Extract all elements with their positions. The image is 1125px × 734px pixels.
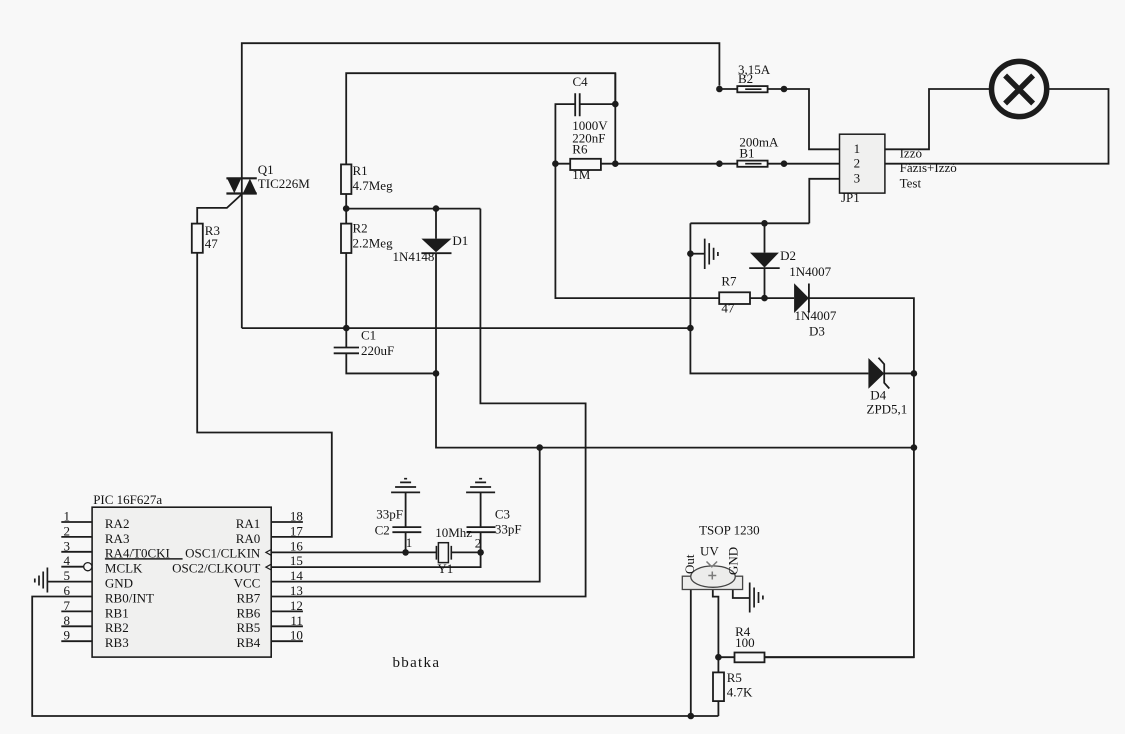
wire B2 right to JP1 pin1 [768,89,840,149]
fuse B2 [737,86,767,92]
junction B2 left [716,86,723,93]
svg-text:RB3: RB3 [105,635,129,650]
svg-text:33pF: 33pF [376,507,403,522]
svg-text:2: 2 [854,156,861,171]
svg-text:RB0/INT: RB0/INT [105,590,154,605]
wire VCC riser [271,448,540,582]
svg-text:RA0: RA0 [236,531,261,546]
resistor R6 [570,159,601,170]
svg-text:9: 9 [64,628,71,643]
wire R1 top rail [346,73,615,164]
svg-text:JP1: JP1 [841,190,860,205]
svg-text:1N4007: 1N4007 [795,308,837,323]
wire C4 left column [555,104,719,298]
pin 7 stub [61,610,92,612]
svg-text:33pF: 33pF [495,522,522,537]
wire R2 column [345,209,347,329]
resistor R7 [719,292,750,304]
svg-text:Q1: Q1 [258,162,274,177]
wire D2 column [764,223,766,298]
wire C4R6 right column [614,73,616,164]
svg-text:R7: R7 [721,274,737,289]
wire gate riser right branch [271,209,585,597]
svg-text:RB5: RB5 [236,620,260,635]
pin 11 stub [271,625,303,627]
junction R1/R2/gate [343,205,350,212]
junction D1/C1 [433,370,440,377]
transistor Q1 triac top bar [226,177,256,179]
transistor Q1 triac left triangle [227,179,241,194]
junction VCC riser [536,444,543,451]
crystal Y1 plates [436,546,451,560]
svg-text:18: 18 [290,509,303,524]
svg-text:6: 6 [64,583,71,598]
wire D3 to right column [765,298,914,657]
wire R3 gate [197,194,242,224]
wire R5 column [717,657,719,716]
wire R4 row [718,656,914,658]
wire D4 cathode [884,372,914,374]
wire R3 bottom to pin17 [197,253,332,537]
svg-text:TIC226M: TIC226M [258,176,310,191]
wire TSOP mid pin [713,590,719,658]
IR receiver U2 base [682,576,742,589]
wire C3 drop [480,492,482,552]
wire ground tap [690,253,704,255]
svg-text:R2: R2 [353,220,368,235]
resistor R2 [341,224,351,253]
svg-text:bbatka: bbatka [393,655,441,671]
diode D2 triangle [750,253,779,268]
capacitor C3 plates [467,527,496,532]
resistor R5 [713,672,724,701]
wire C2 drop [405,492,407,552]
wire R1 bottom to junction row [345,194,347,209]
svg-text:RA1: RA1 [236,516,261,531]
svg-text:OSC1/CLKIN: OSC1/CLKIN [185,546,261,561]
wire JP1 pin3 riser [809,179,839,224]
wire R7 right to D3 [750,297,794,299]
pin 16 input arrow [266,550,271,556]
wire B1 right to JP1 pin2 [768,163,840,165]
svg-text:7: 7 [64,598,71,613]
wire pin15 jog [271,552,480,567]
wire JP1 pin1 to lamp [885,89,991,149]
junction R7/D2/D3 [761,295,768,302]
svg-text:1N4007: 1N4007 [789,264,831,279]
svg-text:R6: R6 [572,141,588,156]
svg-text:5: 5 [64,568,71,583]
svg-text:C3: C3 [495,507,510,522]
wire C4 right [580,103,616,105]
pin 15 input arrow [266,564,271,570]
wire TSOP gnd pin [733,590,750,599]
diode D3 triangle [794,283,809,313]
svg-text:RB2: RB2 [105,620,129,635]
pin 10 stub [271,640,303,642]
earth ground C2 [391,479,420,493]
wire pin5 to ground [47,581,92,583]
svg-text:VCC: VCC [234,576,261,591]
junction ground tap [687,250,694,257]
diode D1 cathode bar [421,252,451,254]
junction B2 right [781,86,788,93]
svg-text:16: 16 [290,538,304,553]
svg-text:10: 10 [290,628,303,643]
wire C1 bottom [346,353,436,373]
svg-text:C4: C4 [573,74,589,89]
svg-text:1: 1 [854,141,861,156]
wire pin6 down and bottom rail [32,597,718,717]
junction D1 top [433,205,440,212]
wire lamp right loop [885,89,1109,164]
transistor Q1 triac bottom bar [226,192,256,194]
svg-text:B2: B2 [738,71,753,86]
resistor R4 [735,653,765,663]
diode D3 cathode bar [808,284,810,313]
pin 3 stub [61,551,92,553]
junction D2 top [761,220,768,227]
svg-text:1M: 1M [572,167,591,182]
svg-text:2.2Meg: 2.2Meg [353,235,394,250]
wire D1 column [436,209,914,448]
svg-text:RB1: RB1 [105,605,129,620]
diode D4 zener bar [879,358,890,389]
svg-text:11: 11 [290,613,303,628]
svg-text:D4: D4 [870,387,886,402]
svg-text:2: 2 [64,523,71,538]
pin 4 stub with bubble [61,566,83,568]
pin 4 inversion bubble [84,563,92,571]
wire crystal to C3 node [451,551,480,553]
crystal Y1 body [438,543,448,563]
svg-text:2: 2 [475,536,482,551]
svg-text:1: 1 [64,509,71,524]
junction bottom rail/TSOP [688,713,695,720]
junction crystal pin2 [477,549,484,556]
capacitor C4 plates [575,93,580,116]
svg-text:8: 8 [64,613,71,628]
svg-text:Fázis+Izzó: Fázis+Izzó [900,160,957,175]
svg-text:10Mhz: 10Mhz [435,525,472,540]
junction R6 left [552,160,559,167]
svg-text:4.7Meg: 4.7Meg [353,178,394,193]
junction Q1 wire end [687,325,694,332]
junction C1/R2/Q1 [343,325,350,332]
svg-text:3: 3 [854,171,861,186]
pin 12 stub [271,610,303,612]
ground GND3 [750,583,763,613]
diode D2 cathode bar [749,267,780,269]
svg-text:1: 1 [406,535,413,550]
svg-text:12: 12 [290,598,303,613]
ground GND2 [35,568,48,593]
junction R4/R5 [715,654,722,661]
svg-text:OSC2/CLKOUT: OSC2/CLKOUT [172,561,260,576]
svg-text:47: 47 [205,236,219,251]
pin 2 stub [61,536,92,538]
diode D1 triangle [421,239,451,253]
svg-text:PIC 16F627a: PIC 16F627a [93,492,162,507]
resistor R1 [341,164,351,194]
junction crystal pin1 [402,549,409,556]
svg-text:15: 15 [290,553,303,568]
svg-text:Y1: Y1 [437,561,453,576]
wire Q1 bottom to ground column [242,327,691,329]
junction C4 right [612,101,619,108]
svg-text:RB7: RB7 [236,590,260,605]
junction D4 cathode [911,370,918,377]
underline RA4/T0CKI [105,558,183,560]
svg-text:GND: GND [726,547,741,575]
svg-text:D3: D3 [809,324,825,339]
svg-text:D2: D2 [780,248,796,263]
wire C1 top [345,328,347,347]
svg-text:TSOP 1230: TSOP 1230 [699,522,760,537]
svg-text:GND: GND [105,576,133,591]
lamp symbol [992,61,1047,116]
svg-text:100: 100 [735,635,755,650]
wire top rail [242,43,720,328]
transistor Q1 triac right triangle [243,179,257,194]
svg-text:Test: Test [900,175,922,190]
junction B1 left [716,160,723,167]
svg-text:D1: D1 [452,233,468,248]
fuse B1 element [745,163,761,165]
fuse B1 [737,161,767,167]
wire B2 left stub [719,88,737,90]
photo arrow mark [707,562,718,567]
plus mark [708,572,716,580]
junction B1 right [781,160,788,167]
svg-text:3: 3 [64,538,71,553]
svg-text:B1: B1 [739,145,754,160]
svg-text:RB4: RB4 [236,635,260,650]
svg-text:13: 13 [290,583,303,598]
svg-text:RA3: RA3 [105,531,130,546]
pin 1 stub [61,521,92,523]
svg-text:MCLK: MCLK [105,561,143,576]
svg-text:4.7K: 4.7K [727,684,753,699]
svg-text:14: 14 [290,568,304,583]
fuse B2 element [745,88,761,90]
op-amp U1 PIC16F627a box [92,507,271,657]
svg-text:R1: R1 [353,163,368,178]
svg-text:RB6: RB6 [236,605,260,620]
capacitor C1 plates [334,348,359,354]
wire R6 row [555,163,737,165]
wire junction row R1-D1-gate riser [346,208,480,210]
svg-text:17: 17 [290,523,304,538]
svg-text:UV: UV [700,544,719,559]
ground GND1 [705,239,718,269]
diode D4 triangle [868,358,884,389]
wire ground column [690,223,868,373]
wire TSOP out pin [690,590,692,717]
connector JP1 [840,134,885,193]
resistor R3 [192,224,203,253]
svg-text:47: 47 [721,300,735,315]
IR receiver U2 dome [691,566,736,587]
svg-text:220uF: 220uF [361,343,394,358]
svg-text:Out: Out [682,554,697,574]
svg-text:1N4148: 1N4148 [393,249,435,264]
svg-text:RA2: RA2 [105,516,130,531]
svg-text:C2: C2 [375,523,390,538]
svg-text:C1: C1 [361,328,376,343]
wire pin16 to crystal [271,551,436,553]
pin 9 stub [61,640,92,642]
junction R6 right [612,160,619,167]
pin 18 stub [271,521,303,523]
capacitor C2 plates [392,527,421,532]
svg-text:R5: R5 [727,670,742,685]
junction right column mid [911,444,918,451]
svg-text:ZPD5,1: ZPD5,1 [867,402,908,417]
wire D2 top rail [690,222,809,224]
pin 8 stub [61,625,92,627]
svg-text:Izzó: Izzó [900,146,922,161]
earth ground C3 [466,479,495,493]
